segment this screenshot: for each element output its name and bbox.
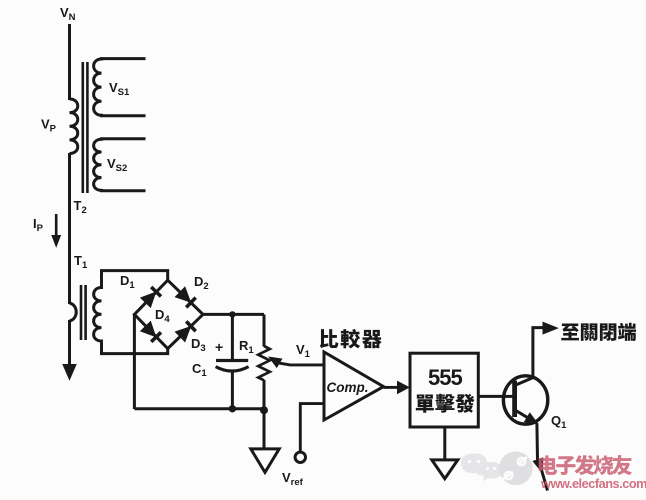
wire bottom rail	[134, 407, 264, 410]
wire emitter down	[535, 423, 539, 459]
wire Vref to comparator	[300, 404, 323, 452]
transformer T1 core	[80, 285, 83, 340]
node junction C1 bottom	[229, 405, 236, 412]
svg-text:Comp.: Comp.	[327, 380, 369, 395]
label 555 one-shot (Chinese)	[416, 394, 475, 413]
wire rail to ground	[263, 410, 266, 449]
transformer T1 secondary winding and loop wires	[94, 271, 168, 354]
transformer T2 core	[82, 62, 85, 193]
wire R1 wiper to comparator	[269, 357, 281, 367]
ground symbol 555	[432, 460, 458, 479]
diode D2	[175, 287, 195, 307]
transformer T2 secondary VS1	[94, 59, 146, 116]
arrowhead to shutdown	[543, 322, 558, 334]
wire collector up	[533, 328, 544, 379]
diode bridge diamond	[134, 280, 203, 348]
svg-text:+: +	[215, 339, 223, 355]
box 555 one-shot	[410, 353, 478, 427]
terminal Vref	[295, 452, 305, 462]
wire 555 to ground	[443, 427, 446, 460]
watermark gray chat icon	[461, 454, 502, 482]
diode D1	[141, 287, 161, 307]
watermark red site name	[539, 455, 632, 475]
node junction C1 top	[229, 311, 235, 317]
label comparator (Chinese)	[320, 329, 382, 348]
node junction R1 bottom	[260, 406, 268, 414]
transformer T2 primary coil VP	[70, 99, 78, 154]
transformer T1 primary bump	[70, 303, 77, 321]
arrowhead emitter current	[533, 458, 543, 472]
label to-shutdown-terminal (Chinese)	[561, 323, 636, 341]
watermark gray circle icon	[499, 452, 533, 486]
wire main vertical lower	[68, 320, 71, 367]
arrow IP	[55, 214, 58, 237]
wire bridge output top	[203, 313, 264, 316]
wire 555 to transistor base	[478, 395, 514, 398]
transformer T2 secondary VS2	[94, 139, 146, 191]
svg-text:www.elecfans.com: www.elecfans.com	[540, 476, 646, 491]
capacitor C1	[231, 314, 234, 360]
wire main vertical top	[68, 24, 71, 100]
wire bridge negative branch	[133, 314, 136, 409]
arrowhead main line	[63, 365, 76, 380]
diode D3	[175, 321, 195, 341]
wire comparator output arrow	[384, 386, 400, 389]
wire main vertical middle	[68, 153, 71, 304]
op-amp U1 comparator	[324, 352, 384, 420]
diode D4	[141, 322, 161, 342]
transistor Q1	[503, 376, 547, 424]
svg-text:555: 555	[428, 365, 462, 390]
ground symbol left	[251, 449, 279, 473]
resistor R1 (potentiometer)	[263, 314, 266, 346]
